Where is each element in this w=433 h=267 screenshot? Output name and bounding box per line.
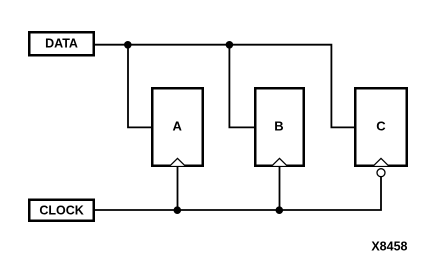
svg-text:A: A xyxy=(173,118,183,133)
svg-text:X8458: X8458 xyxy=(371,239,407,253)
svg-text:CLOCK: CLOCK xyxy=(39,203,83,217)
svg-text:C: C xyxy=(376,118,386,133)
svg-text:DATA: DATA xyxy=(45,36,78,50)
svg-text:B: B xyxy=(274,118,283,133)
